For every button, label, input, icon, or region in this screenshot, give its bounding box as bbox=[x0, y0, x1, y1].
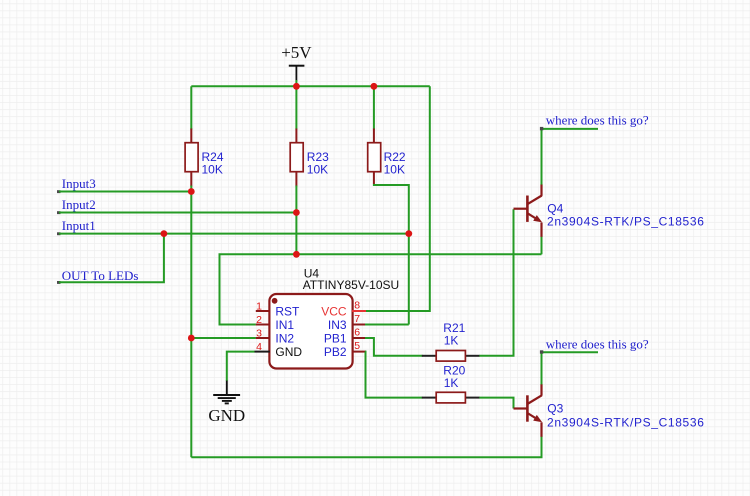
node IN1-R23 bbox=[293, 251, 300, 258]
wire Q4 emitter down bbox=[541, 237, 543, 255]
transistor Q4 bbox=[514, 184, 705, 237]
svg-text:IN2: IN2 bbox=[275, 331, 294, 345]
pin 3 IN2 bbox=[256, 327, 295, 345]
svg-text:2n3904S-RTK/PS_C18536: 2n3904S-RTK/PS_C18536 bbox=[547, 416, 705, 430]
svg-text:1K: 1K bbox=[444, 376, 459, 390]
svg-text:where does this go?: where does this go? bbox=[546, 113, 649, 128]
resistor R23 bbox=[290, 129, 329, 187]
pin 7 IN3 bbox=[328, 313, 366, 332]
wire Input3 bbox=[59, 191, 191, 193]
wire where-top bbox=[542, 128, 599, 130]
svg-text:4: 4 bbox=[256, 341, 262, 353]
svg-text:+5V: +5V bbox=[281, 43, 312, 62]
wire col R23 lower bbox=[295, 186, 297, 255]
svg-text:8: 8 bbox=[354, 299, 360, 311]
pin 1 RST bbox=[256, 300, 300, 318]
svg-text:Q4: Q4 bbox=[547, 201, 563, 215]
transistor Q3 bbox=[514, 384, 705, 437]
svg-text:10K: 10K bbox=[384, 163, 405, 177]
svg-text:RST: RST bbox=[275, 304, 300, 318]
pin 4 GND bbox=[255, 341, 303, 359]
ground bbox=[208, 381, 245, 426]
pin 6 PB1 bbox=[324, 326, 366, 345]
svg-text:10K: 10K bbox=[202, 163, 223, 177]
svg-text:ATTINY85V-10SU: ATTINY85V-10SU bbox=[303, 278, 399, 292]
svg-text:1K: 1K bbox=[444, 333, 459, 347]
svg-text:2n3904S-RTK/PS_C18536: 2n3904S-RTK/PS_C18536 bbox=[547, 215, 705, 229]
svg-text:2: 2 bbox=[256, 314, 262, 326]
svg-text:5: 5 bbox=[354, 340, 360, 352]
wire Q4 collector up bbox=[541, 129, 543, 185]
pin 8 VCC bbox=[321, 299, 366, 318]
wire power rail bbox=[191, 85, 429, 87]
node Input3-R24 bbox=[188, 188, 195, 195]
node rail-R22 bbox=[371, 83, 378, 90]
net label Input1 bbox=[57, 218, 96, 235]
net label where does this go? (bottom) bbox=[546, 336, 649, 351]
wire pin6 to R21 bbox=[365, 338, 423, 356]
wire col R24 upper bbox=[190, 86, 192, 129]
pin 2 IN1 bbox=[256, 314, 295, 332]
IC U4 ATTINY85V-10SU bbox=[269, 266, 399, 368]
node Input1-R22 bbox=[405, 230, 412, 237]
svg-text:IN3: IN3 bbox=[328, 318, 347, 332]
wire OUT To LEDs elbow to Input1 bbox=[59, 234, 164, 283]
wire R21 to Q4 base bbox=[479, 209, 513, 356]
resistor R20 bbox=[422, 364, 480, 403]
pin 5 PB2 bbox=[324, 340, 366, 359]
wire rail right end down to pin8 bbox=[365, 86, 430, 311]
svg-text:Input1: Input1 bbox=[62, 218, 96, 233]
net label where does this go? (top) bbox=[546, 113, 649, 128]
net label Input3 bbox=[57, 176, 96, 193]
wire GND (pin4 to ground) bbox=[227, 352, 255, 381]
svg-text:OUT To LEDs: OUT To LEDs bbox=[62, 268, 139, 283]
node IN2-colA bbox=[188, 335, 195, 342]
wire pin5 to R20 bbox=[365, 352, 423, 398]
wire pin7 to column bbox=[365, 324, 409, 326]
wire IN1 net (pin2 to Q4 emitter) bbox=[220, 254, 542, 324]
svg-text:VCC: VCC bbox=[321, 304, 347, 318]
svg-text:3: 3 bbox=[256, 327, 262, 339]
svg-text:7: 7 bbox=[354, 313, 360, 325]
net label OUT To LEDs bbox=[57, 268, 138, 284]
svg-text:6: 6 bbox=[354, 326, 360, 338]
node Input1-OUT bbox=[161, 230, 168, 237]
svg-text:Input2: Input2 bbox=[62, 197, 96, 212]
svg-text:Input3: Input3 bbox=[62, 176, 96, 191]
wire Input1 bbox=[59, 233, 409, 235]
svg-text:where does this go?: where does this go? bbox=[546, 336, 649, 351]
wire R22 elbow to pin7 column bbox=[374, 184, 409, 325]
power +5V bbox=[281, 43, 312, 81]
wire col R23 upper bbox=[295, 86, 297, 129]
wire where-bottom bbox=[542, 351, 599, 353]
net label Input2 bbox=[57, 197, 96, 214]
resistor R21 bbox=[422, 321, 480, 361]
resistor R24 bbox=[185, 129, 224, 187]
wire Input2 bbox=[59, 212, 296, 214]
wire Q3 collector up bbox=[541, 352, 543, 384]
node rail-R23 bbox=[293, 83, 300, 90]
svg-text:PB2: PB2 bbox=[324, 345, 347, 359]
svg-text:10K: 10K bbox=[307, 163, 328, 177]
svg-text:GND: GND bbox=[208, 406, 245, 425]
svg-text:1: 1 bbox=[256, 300, 262, 312]
wire R20 to Q3 base bbox=[479, 398, 513, 409]
svg-text:GND: GND bbox=[275, 345, 302, 359]
node Input2-R23 bbox=[293, 209, 300, 216]
wire +5V stem bbox=[295, 80, 297, 86]
svg-text:IN1: IN1 bbox=[275, 318, 294, 332]
wire Q3 emitter to bottom rail bbox=[191, 437, 541, 458]
wire col R22 upper bbox=[373, 86, 375, 129]
svg-text:Q3: Q3 bbox=[547, 401, 563, 415]
svg-text:PB1: PB1 bbox=[324, 331, 347, 345]
resistor R22 bbox=[368, 129, 406, 185]
wire col R24 lower long bbox=[190, 186, 192, 458]
wire IN2 (col A to pin3) bbox=[191, 337, 256, 339]
